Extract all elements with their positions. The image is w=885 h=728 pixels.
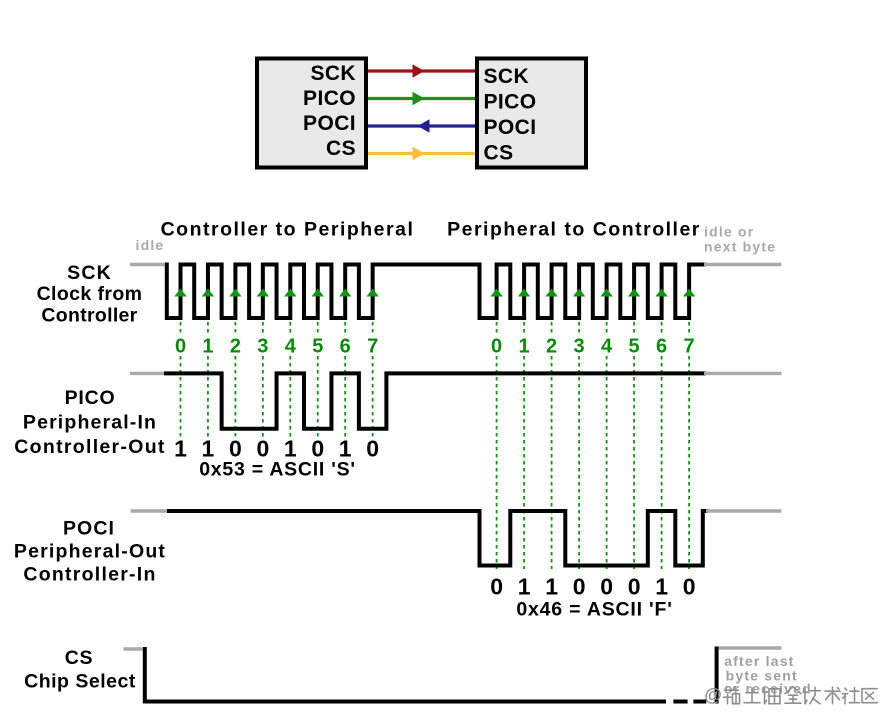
- svg-text:SCK: SCK: [484, 65, 530, 88]
- label after last byte sent or received: [724, 653, 812, 697]
- title controller to peripheral: [161, 219, 415, 241]
- svg-text:POCI: POCI: [63, 518, 115, 540]
- label POCI peripheral-out controller-in: [14, 518, 166, 586]
- svg-text:0: 0: [628, 574, 641, 600]
- svg-text:POCI: POCI: [303, 112, 356, 135]
- title peripheral to controller: [447, 219, 701, 241]
- svg-text:@: @: [704, 685, 722, 705]
- svg-text:0: 0: [573, 574, 586, 600]
- svg-text:0x53 = ASCII 'S': 0x53 = ASCII 'S': [199, 458, 356, 480]
- svg-text:POCI: POCI: [484, 116, 537, 139]
- svg-text:7: 7: [684, 336, 695, 358]
- svg-text:2: 2: [230, 336, 241, 358]
- wire PICO idle gray left: [130, 372, 164, 375]
- svg-text:Peripheral to Controller: Peripheral to Controller: [447, 219, 701, 241]
- watermark: [704, 685, 877, 705]
- svg-text:PICO: PICO: [65, 387, 116, 409]
- svg-text:3: 3: [257, 336, 268, 358]
- svg-text:1: 1: [545, 574, 558, 600]
- svg-text:0: 0: [600, 574, 613, 600]
- node bit numbers right byte: [491, 336, 695, 358]
- svg-text:6: 6: [656, 336, 667, 358]
- svg-text:1: 1: [519, 336, 530, 358]
- node clock edge arrows right byte: [490, 289, 695, 297]
- svg-text:next byte: next byte: [704, 239, 776, 255]
- svg-text:5: 5: [312, 336, 323, 358]
- svg-text:0: 0: [491, 336, 502, 358]
- label 0x46 ascii F: [516, 599, 672, 621]
- svg-text:5: 5: [629, 336, 640, 358]
- svg-text:3: 3: [574, 336, 585, 358]
- node sample dashed lines right byte: [497, 322, 689, 569]
- node PICO bit values: [174, 436, 379, 462]
- svg-text:CS: CS: [326, 137, 356, 160]
- svg-text:4: 4: [285, 336, 297, 358]
- label idle (left): [136, 237, 165, 253]
- svg-text:0: 0: [683, 574, 696, 600]
- label PICO peripheral-in controller-out: [14, 387, 165, 458]
- wire PICO data waveform: [164, 373, 706, 428]
- svg-text:Clock from: Clock from: [37, 283, 143, 305]
- label idle or next byte: [704, 223, 776, 254]
- node sample dashed lines left byte: [181, 322, 373, 438]
- wire CS idle gray right: [719, 646, 782, 649]
- controller box U1: [257, 59, 366, 168]
- svg-text:Chip Select: Chip Select: [24, 671, 136, 693]
- wire SCK idle gray right: [704, 263, 782, 266]
- wire SCK idle gray left: [130, 263, 167, 266]
- label SCK clock from controller: [37, 262, 143, 327]
- wire POCI data waveform: [167, 511, 708, 566]
- svg-text:1: 1: [655, 574, 668, 600]
- svg-text:SCK: SCK: [67, 262, 112, 284]
- svg-text:idle: idle: [136, 237, 165, 253]
- svg-text:1: 1: [202, 336, 213, 358]
- svg-text:Peripheral-In: Peripheral-In: [23, 412, 157, 434]
- svg-text:idle or: idle or: [704, 223, 754, 239]
- svg-text:6: 6: [340, 336, 351, 358]
- node bit numbers left byte: [175, 336, 378, 358]
- wire CS arrow: [368, 147, 475, 161]
- svg-text:0: 0: [366, 436, 379, 462]
- svg-text:Controller-In: Controller-In: [23, 564, 156, 586]
- wire POCI idle gray right: [706, 509, 782, 512]
- svg-text:0: 0: [175, 336, 186, 358]
- wire POCI idle gray left: [131, 509, 168, 512]
- peripheral box U2: [477, 59, 586, 168]
- svg-text:SCK: SCK: [310, 62, 356, 85]
- wire PICO idle gray right: [704, 372, 782, 375]
- svg-text:CS: CS: [65, 647, 94, 669]
- wire SCK arrow: [368, 64, 475, 78]
- svg-text:0x46 = ASCII 'F': 0x46 = ASCII 'F': [516, 599, 672, 621]
- label 0x53 ascii S: [199, 458, 356, 480]
- svg-text:7: 7: [367, 336, 378, 358]
- svg-text:PICO: PICO: [303, 87, 356, 110]
- svg-text:4: 4: [601, 336, 613, 358]
- svg-text:CS: CS: [484, 142, 514, 165]
- wire SCK clock waveform: [165, 265, 706, 319]
- node clock edge arrows left byte: [174, 289, 379, 297]
- svg-text:1: 1: [518, 574, 531, 600]
- svg-text:PICO: PICO: [484, 91, 537, 114]
- wire CS idle gray left: [124, 647, 144, 650]
- svg-text:Controller to Peripheral: Controller to Peripheral: [161, 219, 415, 241]
- svg-text:0: 0: [490, 574, 503, 600]
- svg-text:Controller: Controller: [41, 305, 137, 327]
- svg-text:1: 1: [174, 436, 187, 462]
- wire CS select waveform: [143, 647, 717, 704]
- svg-text:Peripheral-Out: Peripheral-Out: [14, 541, 166, 563]
- wire PICO arrow: [368, 92, 475, 106]
- wire POCI arrow: [368, 119, 475, 133]
- label CS chip select: [24, 647, 136, 693]
- node POCI bit values: [490, 574, 695, 600]
- svg-text:Controller-Out: Controller-Out: [14, 436, 165, 458]
- svg-text:2: 2: [546, 336, 557, 358]
